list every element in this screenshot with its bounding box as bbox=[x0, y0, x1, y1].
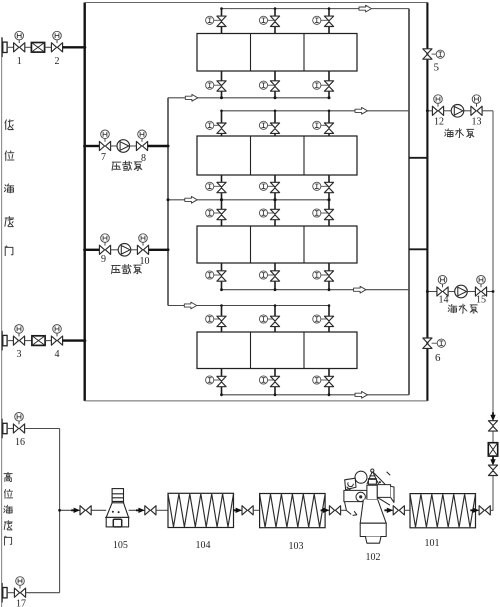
svg-text:4: 4 bbox=[55, 349, 60, 360]
discharge collector (thick right) bbox=[426, 3, 428, 401]
label 低位海底门 (low sea chest) bbox=[4, 120, 13, 256]
wire: sea chest to valve 1 bbox=[7, 46, 14, 48]
wire: pump to valve 15 bbox=[467, 291, 475, 293]
junction: bus x ballast line 9 bbox=[83, 248, 86, 251]
shut-off valve (overboard line lower) bbox=[488, 465, 497, 475]
branch valve bank3 bottom #2 bbox=[259, 263, 279, 291]
svg-text:5: 5 bbox=[433, 62, 439, 74]
flow arrow (before engine valve) bbox=[321, 508, 330, 513]
wire: sea chest to valve 17 bbox=[7, 592, 14, 594]
wire: engine cooling suction line bbox=[60, 509, 107, 511]
junction: bus x ballast line 7 bbox=[83, 144, 86, 147]
wire: valve 12 to pump bbox=[444, 110, 452, 112]
cooler 103 bbox=[260, 494, 326, 528]
header: bank2 inlet bbox=[222, 110, 410, 112]
cooler bank 1 bbox=[197, 34, 357, 72]
flow arrow (before inlet valve) bbox=[71, 508, 80, 513]
flow arrow: bank3 outlet header bbox=[354, 286, 366, 293]
handwheel valve 14 bbox=[438, 276, 447, 285]
valve 2 bbox=[51, 40, 62, 52]
branch valve bank3 top #2 bbox=[259, 198, 279, 226]
branch valve bank2 bottom #3 bbox=[313, 175, 334, 201]
svg-text:13: 13 bbox=[472, 117, 482, 128]
valve 13 bbox=[471, 103, 482, 115]
branch valve bank1 top #3 bbox=[313, 7, 334, 33]
branch valve bank2 top #3 bbox=[313, 110, 334, 137]
wire: bus to valve 7 (thick) bbox=[86, 145, 100, 147]
cooler 101 bbox=[410, 494, 476, 528]
wire: valve 9 to pump bbox=[111, 249, 119, 251]
valve 1 bbox=[14, 40, 25, 52]
wire: strainer to valve 2 bbox=[45, 46, 52, 48]
header: bank4 inlet bbox=[168, 305, 329, 307]
wire: strainer to valve 4 bbox=[45, 340, 51, 342]
wire: cooler 101 to valve bbox=[476, 509, 480, 511]
handwheel valve 10 bbox=[139, 234, 148, 243]
flow arrow (before overboard valve) bbox=[470, 508, 479, 513]
cooler bank 3 bbox=[197, 226, 357, 263]
branch valve bank1 bottom #2 bbox=[259, 71, 279, 99]
seawater pump bbox=[451, 105, 464, 118]
engine line inlet valve bbox=[80, 506, 91, 515]
indicator circle valve 6 bbox=[437, 339, 445, 347]
wire: valve 7 to pump bbox=[111, 145, 117, 147]
valve 5 bbox=[423, 49, 436, 59]
valve 8 bbox=[136, 139, 147, 151]
branch valve bank1 top #1 bbox=[206, 7, 227, 33]
branch valve bank4 top #3 bbox=[313, 304, 334, 332]
wire: filter 105 to valve bbox=[129, 509, 145, 511]
flow arrow: bank2 inlet header bbox=[355, 107, 367, 114]
flow arrow: bank2/3 shared header bbox=[185, 196, 197, 203]
sea chest inlet fitting (line 3-4) bbox=[2, 331, 7, 351]
wire: valve 14 to pump bbox=[448, 291, 455, 293]
sea chest inlet fitting (line 1-2) bbox=[2, 38, 7, 58]
high sea chest riser bbox=[59, 429, 61, 593]
overboard connection valve bbox=[479, 506, 490, 515]
header: bank2/bank3 shared bbox=[168, 199, 330, 201]
branch valve bank4 bottom #3 bbox=[313, 369, 334, 397]
wire: valve 3 to strainer bbox=[25, 340, 32, 342]
strainer (line 1-2) bbox=[31, 43, 44, 53]
handwheel valve 2 bbox=[53, 31, 62, 40]
valve 4 bbox=[51, 333, 62, 345]
handwheel valve 13 bbox=[472, 95, 481, 104]
suction bus (low sea chests, thick) bbox=[83, 3, 85, 401]
handwheel valve 15 bbox=[477, 276, 486, 285]
branch valve bank1 bottom #3 bbox=[313, 71, 334, 99]
flow arrow down (overboard line upper) bbox=[490, 412, 495, 421]
flow arrow: bank1 inlet header bbox=[359, 5, 371, 12]
valve 14 bbox=[437, 284, 448, 296]
svg-text:8: 8 bbox=[141, 153, 146, 164]
valve 12 bbox=[432, 103, 443, 115]
header: bank3 outlet bbox=[222, 289, 410, 291]
junction: bus x line3 bbox=[83, 339, 86, 342]
wire: valve 8 outlet (thick) bbox=[148, 145, 168, 147]
main engine 102 bbox=[344, 469, 394, 543]
seawater pump bbox=[455, 285, 468, 298]
valve 10 bbox=[137, 242, 148, 254]
svg-text:103: 103 bbox=[289, 541, 304, 552]
label 高位海底门 (high sea chest) bbox=[4, 472, 13, 545]
branch valve bank3 top #3 bbox=[313, 198, 334, 226]
wire: valve 15 to overboard line bbox=[487, 291, 493, 293]
branch valve bank2 bottom #2 bbox=[259, 175, 279, 201]
wire: valve to cooler 103 bbox=[253, 509, 259, 511]
bridge pipe lower bbox=[409, 248, 427, 250]
flow arrow: bank4 outlet header bbox=[355, 391, 367, 398]
wire: cooler 103 to valve bbox=[325, 509, 329, 511]
overboard riser (matrix right edge) bbox=[408, 9, 410, 395]
wire: valve to main engine bbox=[341, 509, 346, 511]
junction: inner column x shared header bbox=[167, 198, 170, 201]
wire: top crossover line bbox=[85, 2, 428, 4]
cooler bank 4 bbox=[197, 332, 357, 369]
wire: valve to cooler 101 bbox=[404, 509, 410, 511]
wire: valve 2 to suction bus (thick) bbox=[62, 46, 85, 48]
valve 3 bbox=[13, 333, 24, 345]
wire: valve 10 outlet (thick) bbox=[149, 249, 168, 251]
svg-text:7: 7 bbox=[101, 152, 106, 163]
wire: valve to overboard drop line bbox=[490, 509, 493, 511]
wire: sea chest to valve 3 bbox=[7, 340, 13, 342]
svg-text:16: 16 bbox=[15, 437, 25, 448]
wire: pump to valve 10 bbox=[131, 249, 138, 251]
label ballast bbox=[112, 161, 142, 170]
branch valve bank4 top #1 bbox=[206, 304, 227, 332]
junction: bus x line1 bbox=[83, 46, 86, 49]
wire: valve 16 to riser bbox=[25, 428, 60, 430]
valve before cooler 104 bbox=[145, 506, 156, 515]
overboard strainer box bbox=[488, 443, 497, 456]
bridge pipe upper bbox=[409, 157, 427, 159]
branch valve bank2 bottom #1 bbox=[206, 175, 227, 201]
engine outlet valve bbox=[393, 506, 404, 515]
branch valve bank2 top #1 bbox=[206, 110, 227, 137]
header: bank1 inlet (top) bbox=[222, 8, 410, 10]
branch valve bank2 top #2 bbox=[259, 110, 279, 137]
handwheel valve 1 bbox=[15, 31, 24, 40]
branch valve bank3 bottom #1 bbox=[206, 263, 227, 291]
wire: cooler 104 to valve bbox=[234, 509, 243, 511]
wire: overboard discharge drop line bbox=[492, 111, 494, 511]
svg-text:101: 101 bbox=[425, 538, 440, 549]
handwheel valve 7 bbox=[101, 130, 110, 139]
branch valve bank1 bottom #1 bbox=[206, 71, 227, 99]
valve 17 bbox=[14, 585, 25, 597]
hull / shipside line bbox=[1, 37, 3, 607]
valve 16 bbox=[13, 421, 24, 433]
sea chest inlet fitting (line 17) bbox=[2, 583, 7, 603]
wire: pump to valve 13 bbox=[464, 110, 471, 112]
label seawater pump bbox=[445, 129, 474, 138]
svg-text:14: 14 bbox=[439, 295, 449, 306]
cooler bank 2 bbox=[197, 136, 357, 175]
handwheel valve 3 bbox=[15, 325, 24, 334]
header: bank4 outlet bbox=[222, 394, 410, 396]
wire: collector to valve 14 bbox=[427, 291, 437, 293]
header: bank1 outlet bbox=[168, 97, 330, 99]
handwheel valve 12 bbox=[434, 95, 443, 104]
svg-text:105: 105 bbox=[113, 540, 128, 551]
engine inlet valve bbox=[329, 506, 340, 515]
flow arrow: bank4 inlet header bbox=[184, 302, 196, 309]
handwheel valve 9 bbox=[101, 234, 110, 243]
handwheel valve 16 bbox=[15, 413, 24, 422]
handwheel valve 17 bbox=[16, 577, 25, 586]
distribution column (inner vertical) bbox=[167, 98, 169, 306]
svg-text:9: 9 bbox=[101, 254, 106, 265]
wire: sea chest to valve 16 bbox=[7, 428, 13, 430]
wire: valve 4 to suction bus (thick) bbox=[62, 339, 85, 341]
valve 15 bbox=[475, 284, 486, 296]
flow arrow (before 104 valve) bbox=[136, 508, 145, 513]
valve 7 bbox=[99, 139, 110, 151]
shut-off valve (overboard line upper) bbox=[488, 421, 497, 431]
branch valve bank4 top #2 bbox=[259, 304, 279, 332]
branch valve bank4 bottom #2 bbox=[259, 369, 279, 397]
cooler 104 bbox=[168, 493, 234, 527]
wire: bus to valve 9 (thick) bbox=[86, 249, 100, 251]
label ballast bbox=[112, 264, 142, 273]
wire: collector to valve 12 bbox=[427, 110, 432, 112]
svg-text:104: 104 bbox=[196, 540, 211, 551]
svg-text:12: 12 bbox=[434, 117, 444, 128]
valve 9 bbox=[99, 242, 110, 254]
svg-text:102: 102 bbox=[366, 552, 381, 563]
svg-text:2: 2 bbox=[55, 56, 60, 67]
indicator circle valve 5 bbox=[436, 50, 444, 58]
sea water filter 105 bbox=[105, 489, 129, 527]
label seawater pump bbox=[448, 304, 477, 313]
flow arrow (engine outlet) bbox=[384, 508, 393, 513]
branch valve bank1 top #2 bbox=[259, 7, 279, 33]
svg-text:3: 3 bbox=[17, 349, 22, 360]
wire: valve to cooler 104 bbox=[156, 509, 168, 511]
handwheel valve 8 bbox=[138, 130, 147, 139]
svg-text:15: 15 bbox=[476, 295, 486, 306]
sea chest inlet fitting (line 16) bbox=[2, 419, 7, 439]
wire: valve 17 to riser bbox=[26, 592, 60, 594]
branch valve bank3 bottom #3 bbox=[313, 263, 334, 291]
strainer (line 3-4) bbox=[32, 336, 45, 346]
wire: main engine outlet bbox=[389, 509, 393, 511]
wire: valve 1 to strainer bbox=[25, 46, 32, 48]
wire: pump to valve 8 bbox=[130, 145, 137, 147]
wire: valve 13 to overboard line bbox=[482, 110, 493, 112]
valve 6 bbox=[423, 338, 437, 348]
flow arrow: bank1 outlet header bbox=[185, 94, 197, 101]
ballast pump bbox=[117, 140, 130, 153]
branch valve bank4 bottom #1 bbox=[206, 369, 227, 397]
ballast pump bbox=[118, 244, 131, 257]
svg-text:6: 6 bbox=[435, 352, 441, 364]
svg-text:1: 1 bbox=[17, 56, 22, 67]
svg-text:17: 17 bbox=[16, 599, 26, 607]
wire: bottom return line bbox=[85, 400, 428, 402]
valve before cooler 103 bbox=[242, 506, 253, 515]
junction: inner column x ballast line 10 bbox=[167, 248, 170, 251]
junction: inner column x ballast line 8 bbox=[167, 145, 170, 148]
branch valve bank3 top #1 bbox=[206, 198, 227, 226]
handwheel valve 4 bbox=[53, 325, 62, 334]
flow arrow (before 103 valve) bbox=[233, 508, 242, 513]
flow arrow down (overboard line lower) bbox=[490, 457, 495, 466]
